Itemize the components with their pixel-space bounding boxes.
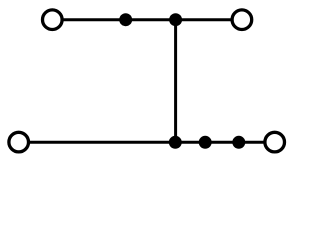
terminal circle top right [232, 10, 252, 30]
wire top rail [52, 18, 242, 21]
wire vertical bridge [174, 20, 177, 143]
junction dot at bottom of bridge [169, 136, 182, 149]
terminal circle bottom left [9, 132, 29, 152]
junction dot top rail [119, 13, 132, 26]
wire bottom rail [19, 141, 275, 144]
junction dot bottom rail middle [199, 136, 212, 149]
terminal circle top left [43, 10, 63, 30]
terminal circle bottom right [265, 132, 285, 152]
junction dot bottom rail right [232, 136, 245, 149]
junction dot at top of bridge [169, 13, 182, 26]
